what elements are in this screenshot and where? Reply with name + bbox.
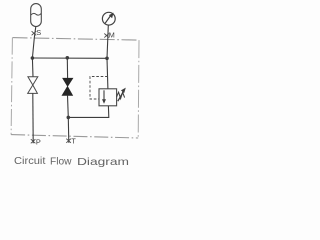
port P star: [31, 139, 36, 143]
port T star: [66, 139, 71, 143]
wire V1 to port P: [32, 93, 34, 143]
enclosure boundary bottom: [11, 135, 138, 138]
enclosure boundary right: [137, 40, 140, 138]
wire B to check valve V2: [66, 58, 68, 79]
gauge needle: [105, 16, 110, 24]
port M star: [104, 34, 109, 38]
shutoff valve V1 (open hourglass): [28, 77, 38, 94]
junction A: [31, 56, 35, 60]
svg-text:M: M: [109, 31, 115, 40]
wire C to relief valve R1 inlet: [106, 58, 109, 89]
svg-text:Diagram: Diagram: [77, 157, 129, 168]
enclosure boundary top: [13, 38, 140, 41]
wire V2 to junction D: [67, 95, 70, 117]
junction C: [105, 57, 109, 61]
svg-text:P: P: [36, 137, 41, 146]
relief valve R1 spring: [117, 92, 125, 98]
svg-text:Flow: Flow: [50, 157, 72, 168]
wire S line: accumulator to junction A: [32, 27, 35, 59]
junction D: [67, 116, 71, 120]
wire gauge to junction C: [107, 25, 108, 58]
wire branch A to C: [32, 57, 107, 59]
pressure gauge G1 body: [102, 12, 115, 25]
enclosure boundary left: [11, 38, 12, 135]
wire R1 outlet to junction D: [68, 106, 109, 118]
svg-text:T: T: [71, 137, 76, 146]
accumulator separator wave: [31, 13, 41, 15]
port S star: [32, 31, 37, 35]
relief valve R1 pilot line (dashed): [90, 77, 108, 100]
relief valve R1 flow arrow: [103, 90, 105, 100]
wire A to shutoff valve V1: [31, 58, 34, 77]
wire D to port T: [67, 117, 70, 142]
check valve V2 (filled hourglass): [62, 78, 72, 95]
relief valve R1 adjustment arrow: [118, 92, 123, 101]
svg-text:S: S: [36, 28, 41, 37]
accumulator A1 shell: [31, 4, 42, 27]
relief valve R1 body: [99, 89, 117, 106]
svg-text:Circuit: Circuit: [14, 156, 46, 167]
junction B: [66, 56, 70, 60]
